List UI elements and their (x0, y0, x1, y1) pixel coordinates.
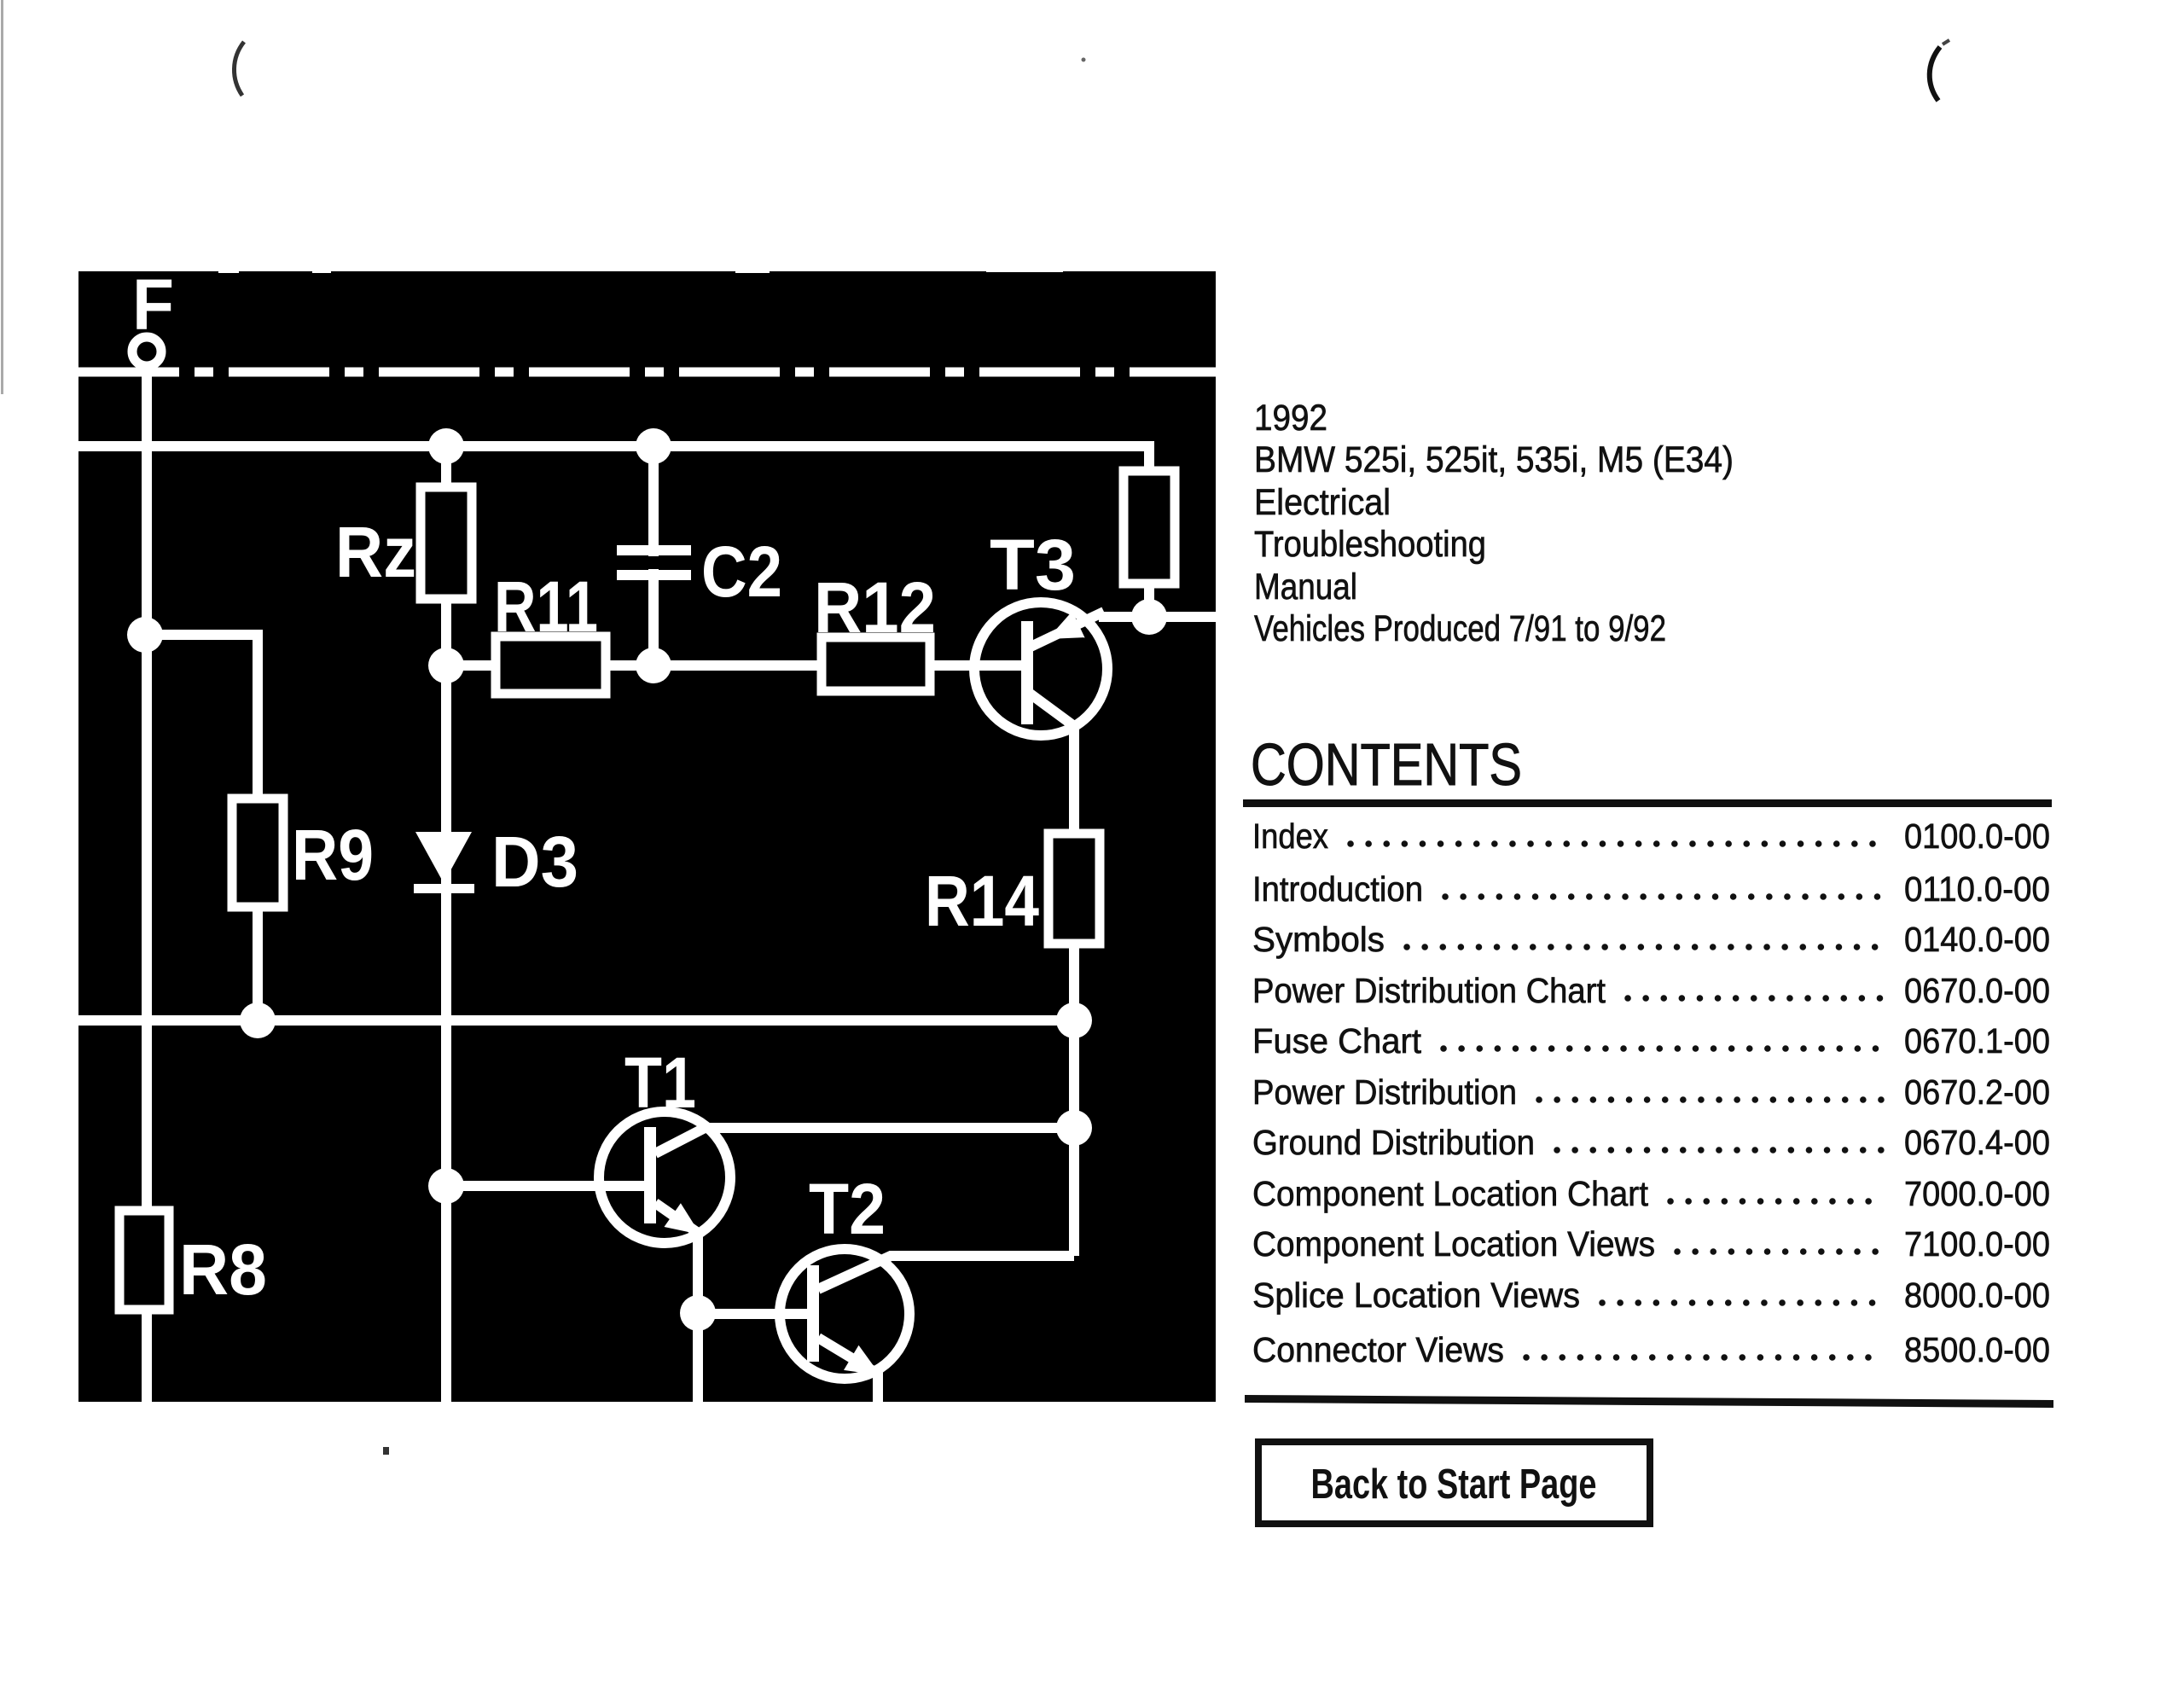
svg-text:Connector Views: Connector Views (1252, 1330, 1504, 1369)
svg-text:0110.0-00: 0110.0-00 (1904, 869, 2050, 909)
svg-text:BMW 525i, 525it, 535i, M5 (E34: BMW 525i, 525it, 535i, M5 (E34) (1254, 439, 1734, 480)
svg-text:R8: R8 (179, 1229, 267, 1310)
svg-text:Component Location Views: Component Location Views (1252, 1224, 1655, 1264)
svg-text:1992: 1992 (1254, 398, 1327, 439)
svg-text:0670.0-00: 0670.0-00 (1904, 971, 2050, 1010)
svg-text:T3: T3 (990, 525, 1076, 605)
svg-text:T1: T1 (624, 1043, 696, 1123)
svg-text:Splice Location Views: Splice Location Views (1252, 1276, 1580, 1315)
svg-text:D3: D3 (491, 822, 578, 902)
svg-text:Fuse Chart: Fuse Chart (1252, 1021, 1422, 1061)
svg-text:0670.2-00: 0670.2-00 (1904, 1072, 2050, 1112)
svg-text:Vehicles Produced 7/91 to 9/92: Vehicles Produced 7/91 to 9/92 (1254, 608, 1666, 649)
svg-text:Component Location Chart: Component Location Chart (1252, 1174, 1649, 1213)
svg-text:CONTENTS: CONTENTS (1251, 731, 1522, 798)
svg-text:Back to Start Page: Back to Start Page (1311, 1461, 1597, 1508)
svg-text:Power Distribution: Power Distribution (1252, 1072, 1517, 1112)
svg-text:C2: C2 (701, 532, 782, 612)
svg-text:7100.0-00: 7100.0-00 (1904, 1224, 2050, 1264)
svg-text:0100.0-00: 0100.0-00 (1904, 816, 2050, 856)
svg-text:T2: T2 (809, 1169, 886, 1249)
svg-text:R11: R11 (494, 567, 598, 647)
svg-text:7000.0-00: 7000.0-00 (1904, 1174, 2050, 1213)
svg-text:Symbols: Symbols (1252, 920, 1385, 959)
svg-text:0140.0-00: 0140.0-00 (1904, 920, 2050, 959)
svg-text:Rz: Rz (335, 512, 416, 592)
svg-text:Introduction: Introduction (1252, 869, 1423, 909)
svg-text:Power Distribution Chart: Power Distribution Chart (1252, 971, 1606, 1010)
svg-text:Ground Distribution: Ground Distribution (1252, 1123, 1535, 1162)
svg-text:F: F (132, 264, 174, 345)
svg-text:Manual: Manual (1254, 567, 1357, 607)
svg-text:Electrical: Electrical (1254, 482, 1391, 523)
svg-text:0670.1-00: 0670.1-00 (1904, 1021, 2050, 1061)
svg-text:R12: R12 (814, 567, 936, 648)
svg-text:8000.0-00: 8000.0-00 (1904, 1276, 2050, 1315)
svg-text:8500.0-00: 8500.0-00 (1904, 1330, 2050, 1369)
svg-text:R9: R9 (292, 815, 374, 895)
svg-text:Troubleshooting: Troubleshooting (1254, 524, 1486, 565)
svg-text:0670.4-00: 0670.4-00 (1904, 1123, 2050, 1162)
svg-text:R14: R14 (925, 861, 1039, 941)
svg-text:Index: Index (1252, 816, 1328, 856)
